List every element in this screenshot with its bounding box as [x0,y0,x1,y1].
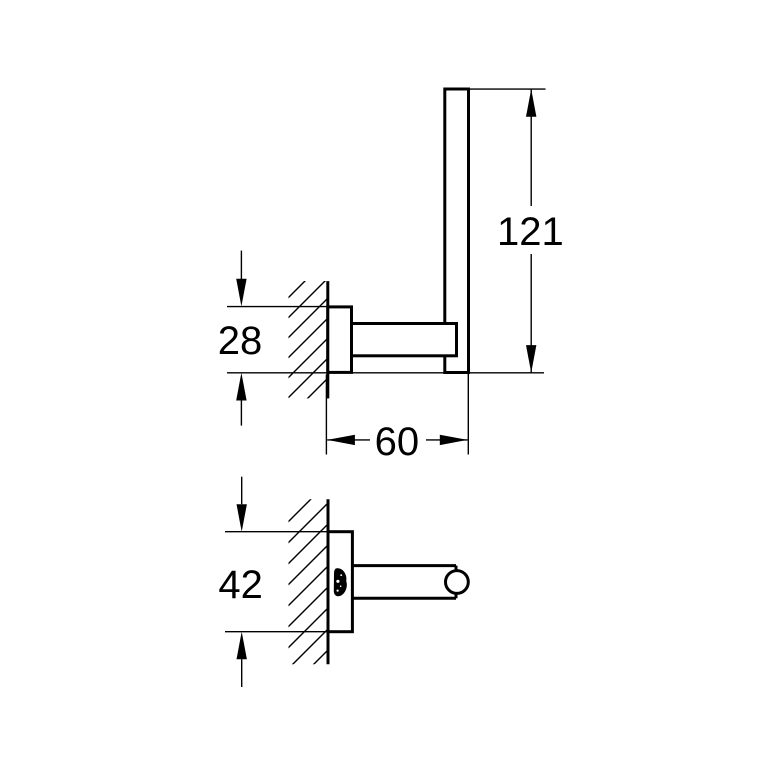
dimension line 121 upper segment [530,89,532,206]
support arm (front view) [352,324,457,356]
mounting plate (front view) [328,307,352,373]
arrowhead 28 bottom [236,373,246,401]
extension line bottom of 42 dimension [225,631,330,633]
dimension 28 top arrow line [240,251,242,280]
arrowhead 28 top [236,279,246,307]
dimension 28 bottom arrow line [240,401,242,426]
shared bottom extension line (28 and 121 dimensions) [227,372,544,374]
wall hatching (side view) [236,454,356,742]
roll rod bottom edge (side view) [352,597,456,600]
dimension 42 top arrow line [241,477,243,505]
GROHE logo engraving on plate edge [334,568,347,596]
dimension line 60 left segment [327,439,370,441]
roll rod end edge (side view) [455,566,458,599]
roll rod top edge (side view) [352,564,456,567]
dimension 42 bottom arrow line [241,659,243,687]
extension line top of 42 dimension [225,531,330,533]
arrowhead 121 top [526,89,536,117]
extension line left of 60 dimension [325,375,327,455]
dimension line 121 lower segment [530,254,532,373]
wall face line (front view) [326,281,329,398]
wall hatching (front view) [236,230,376,490]
svg-text:28: 28 [218,319,263,363]
extension line right of 60 dimension [467,374,469,455]
arrowhead 42 top [237,504,247,532]
arrowhead 42 bottom [237,632,247,660]
rod end cap circle [446,571,469,594]
extension line top of 28 dimension [227,306,330,308]
extension line top of 121 dimension [469,88,546,90]
arrowhead 60 right [440,435,468,445]
svg-text:121: 121 [497,210,564,254]
dimension line 60 right segment [426,439,468,441]
wall face line (side view) [327,499,330,664]
upright bar of holder (front view) [445,89,469,373]
svg-text:60: 60 [375,420,420,464]
svg-text:42: 42 [218,563,263,607]
arrowhead 60 left [327,435,355,445]
arrowhead 121 bottom [526,345,536,373]
mounting plate (side view) [328,532,352,632]
